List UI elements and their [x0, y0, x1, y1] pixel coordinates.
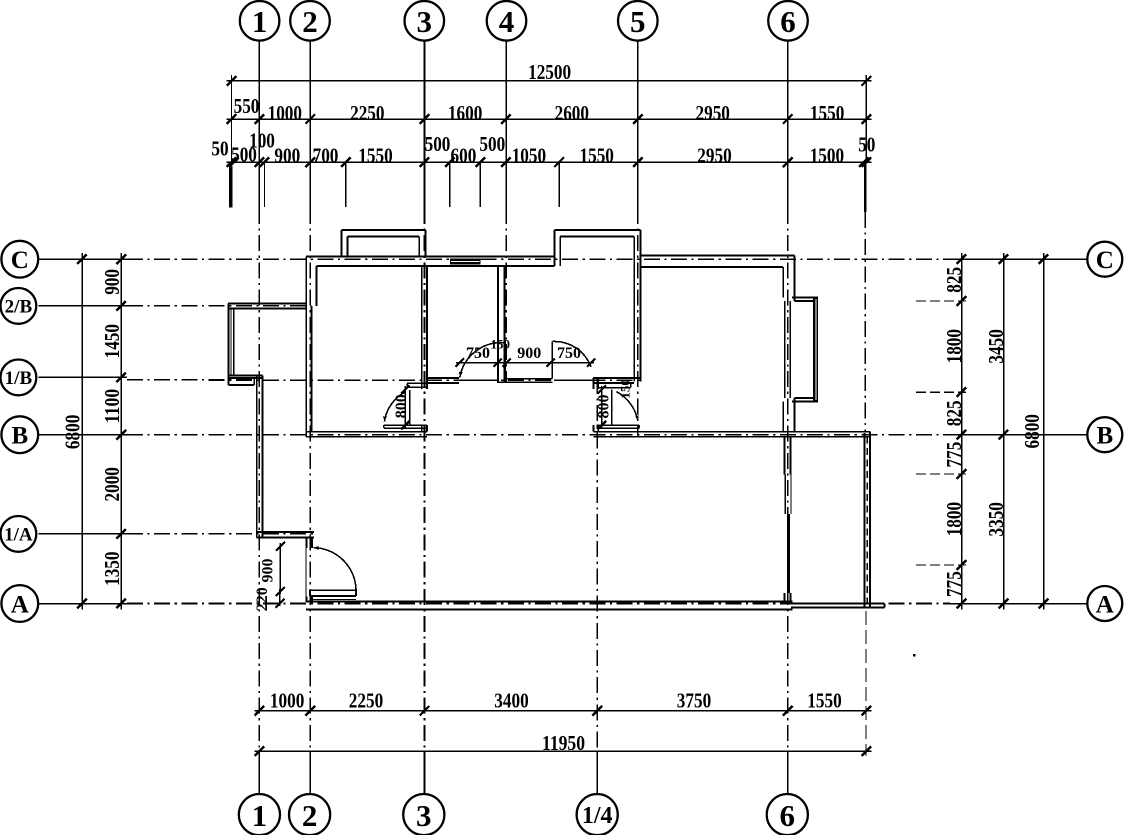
- svg-text:B: B: [11, 423, 28, 450]
- svg-text:50: 50: [211, 137, 228, 161]
- svg-text:1100: 1100: [100, 389, 124, 423]
- bottom dim row2 line: [254, 750, 871, 752]
- svg-text:2250: 2250: [350, 101, 384, 125]
- top dim row3 line: [227, 161, 872, 163]
- grid circle 1/B left: [1, 360, 37, 396]
- svg-text:C: C: [1096, 247, 1114, 274]
- grid circle 2 bottom: [289, 794, 330, 835]
- C wall right segment: [640, 255, 794, 257]
- door D5 outer face line: [305, 548, 307, 596]
- right outer wall grid6 above B: [793, 256, 795, 302]
- svg-text:A: A: [11, 592, 29, 619]
- svg-text:1/4: 1/4: [582, 803, 613, 829]
- svg-text:6800: 6800: [61, 415, 85, 449]
- grid circle 6 top: [768, 1, 808, 41]
- bay window right (bay3): [792, 297, 818, 299]
- A wall (bottom outer): [306, 600, 792, 602]
- svg-text:1550: 1550: [358, 143, 392, 167]
- svg-text:6: 6: [780, 4, 796, 39]
- svg-text:B: B: [1096, 423, 1113, 450]
- grid circle 3 top: [405, 1, 445, 41]
- lower-left wall with entry door (grid2): [305, 537, 307, 548]
- grid line B: [39, 434, 128, 436]
- grid line 4: [505, 41, 507, 209]
- svg-text:1: 1: [252, 798, 268, 833]
- door D3 top bar: [596, 382, 630, 384]
- grid circle 4 top: [487, 1, 527, 41]
- grid circle B right: [1087, 417, 1122, 452]
- svg-text:3400: 3400: [494, 689, 528, 713]
- door D5 sill line: [312, 598, 356, 600]
- interior dim ticks: [456, 358, 464, 366]
- left balcony walls: [228, 303, 306, 305]
- bottom dim row1 line: [254, 710, 871, 712]
- door D1 arc: [460, 343, 505, 378]
- svg-text:220: 220: [254, 587, 271, 611]
- 1/B wall segment left: [427, 377, 459, 379]
- grid circle 6 bottom: [767, 794, 808, 835]
- door D3 arc: [616, 392, 638, 421]
- svg-text:2950: 2950: [697, 143, 731, 167]
- svg-text:1800: 1800: [942, 502, 966, 536]
- svg-text:800: 800: [596, 395, 613, 419]
- svg-text:1600: 1600: [448, 101, 482, 125]
- balcony bottom-right floor edge: [791, 602, 885, 604]
- door D2 arc: [552, 341, 591, 367]
- svg-text:50: 50: [858, 132, 875, 156]
- svg-text:775: 775: [942, 442, 966, 468]
- svg-text:2000: 2000: [100, 467, 124, 501]
- svg-text:3: 3: [417, 4, 433, 39]
- svg-text:2/B: 2/B: [5, 297, 33, 318]
- grid circle 3 bottom: [403, 794, 444, 835]
- grid circle 1 top: [240, 1, 280, 41]
- svg-text:1500: 1500: [810, 143, 844, 167]
- svg-text:3350: 3350: [984, 502, 1008, 536]
- grid circle 1/4 bottom: [577, 794, 618, 835]
- svg-text:11950: 11950: [542, 731, 585, 755]
- door D1 threshold line: [459, 379, 499, 381]
- svg-text:1350: 1350: [100, 552, 124, 586]
- grid line 3: [424, 41, 426, 209]
- window bar in C wall: [450, 258, 481, 264]
- svg-text:1: 1: [252, 4, 268, 39]
- grid circle 1 bottom: [239, 794, 280, 835]
- door D5 (entry) leaf bar: [310, 589, 356, 591]
- left dim total line: [81, 253, 83, 610]
- right extension dashes: [916, 300, 966, 302]
- interior dim line doors D1/D2: [456, 362, 594, 364]
- top right extension line: [865, 75, 867, 162]
- grid line 1/A: [39, 533, 128, 535]
- balcony right wall with railing: [863, 433, 865, 607]
- svg-text:1/B: 1/B: [5, 368, 33, 389]
- svg-text:750: 750: [466, 345, 490, 362]
- top dim row1 line: [227, 80, 872, 82]
- svg-text:500: 500: [479, 132, 505, 156]
- svg-text:800: 800: [393, 394, 410, 418]
- grid circle A right: [1087, 586, 1122, 621]
- svg-text:3: 3: [416, 798, 432, 833]
- door D4 threshold: [384, 424, 427, 426]
- svg-text:900: 900: [260, 559, 277, 583]
- grid circle 5 top: [618, 1, 658, 41]
- C wall left segment: [306, 255, 555, 257]
- door D5 arc: [313, 548, 356, 591]
- interior wall grid3: [421, 266, 423, 389]
- grid line 1: [258, 41, 260, 209]
- grid circle C right: [1087, 242, 1122, 277]
- lower-left outer wall (grid1): [256, 376, 258, 538]
- svg-text:500: 500: [425, 132, 451, 156]
- door D4 arc: [384, 392, 405, 422]
- interior dim line door D5: [279, 543, 281, 594]
- svg-text:12500: 12500: [528, 60, 571, 84]
- grid circle 2/B left: [1, 288, 37, 324]
- svg-text:2600: 2600: [555, 101, 589, 125]
- svg-text:4: 4: [499, 4, 515, 39]
- grid line C: [39, 258, 128, 260]
- door D2 (bedroom3) leaf: [551, 342, 553, 379]
- svg-text:2: 2: [302, 4, 318, 39]
- svg-text:6800: 6800: [1020, 414, 1044, 448]
- svg-text:1800: 1800: [942, 329, 966, 363]
- svg-text:3450: 3450: [984, 329, 1008, 363]
- svg-text:1550: 1550: [807, 689, 841, 713]
- bay window top-middle (bay2): [555, 229, 641, 231]
- grid line A: [39, 603, 128, 605]
- right dim total line: [1043, 253, 1045, 610]
- grid line 1/4: [596, 378, 598, 751]
- right dim ticks: [957, 254, 967, 264]
- svg-text:5: 5: [630, 4, 646, 39]
- grid6 sliding panel: [787, 514, 790, 593]
- svg-text:150: 150: [491, 336, 511, 351]
- grid6 wall below B (living/balcony divider): [783, 437, 785, 475]
- svg-text:1550: 1550: [810, 101, 844, 125]
- interior wall grid4 (central): [497, 266, 499, 383]
- svg-text:2250: 2250: [349, 689, 383, 713]
- door D4 top bar: [407, 382, 427, 384]
- svg-text:2: 2: [302, 798, 318, 833]
- svg-text:900: 900: [100, 269, 124, 295]
- jog wall at 1/A: [257, 531, 314, 533]
- door D3 (right room, 1/4 wall) leaf: [611, 390, 613, 426]
- interior dim line door D4: [404, 386, 406, 429]
- left dim ticks: [77, 254, 87, 264]
- svg-text:600: 600: [451, 143, 477, 167]
- top dim ticks: [227, 76, 237, 86]
- grid line 1/B: [39, 376, 128, 378]
- right dim mid line: [1003, 253, 1005, 610]
- svg-text:100: 100: [249, 129, 275, 153]
- B wall left segment: [306, 431, 427, 433]
- bottom right extension: [865, 611, 867, 756]
- bay3 window glazing lines: [784, 301, 786, 398]
- interior dim line 220: [279, 589, 281, 606]
- arrowheads on door arcs: [458, 371, 463, 378]
- interior dim line door D3: [601, 386, 603, 429]
- grid6 window section: [784, 474, 786, 514]
- grid circle B left: [1, 416, 38, 453]
- door D1 (bedroom2) leaf: [504, 343, 506, 383]
- B wall right segment: [593, 431, 869, 433]
- room divider wall grid5 (bay2 right, down to 1/B): [639, 230, 641, 382]
- svg-text:825: 825: [942, 400, 966, 426]
- svg-text:550: 550: [234, 94, 260, 118]
- stray dot: [913, 654, 916, 657]
- grid circle A left: [1, 585, 38, 622]
- svg-text:1/A: 1/A: [4, 525, 33, 546]
- svg-text:3750: 3750: [677, 689, 711, 713]
- right dim detail line: [961, 253, 963, 610]
- svg-text:C: C: [11, 247, 29, 274]
- door D3 threshold: [596, 424, 639, 426]
- svg-text:900: 900: [274, 143, 300, 167]
- svg-text:150: 150: [618, 379, 633, 399]
- svg-text:825: 825: [942, 267, 966, 293]
- svg-text:700: 700: [313, 143, 339, 167]
- 1/4 wall stubs (door D3 wall): [592, 378, 594, 389]
- grid circle C left: [1, 241, 38, 278]
- bay window top-left (bay1): [342, 229, 426, 231]
- grid line 6: [787, 41, 789, 209]
- svg-text:750: 750: [557, 345, 581, 362]
- svg-text:1000: 1000: [270, 689, 304, 713]
- grid circle 1/A left: [1, 516, 37, 552]
- top dim row2 line: [227, 118, 872, 120]
- grid line 2: [309, 41, 311, 209]
- svg-text:A: A: [1096, 592, 1114, 619]
- svg-text:1050: 1050: [512, 143, 546, 167]
- svg-text:1450: 1450: [100, 324, 124, 358]
- grid line 2/B: [39, 305, 128, 307]
- svg-text:775: 775: [942, 571, 966, 597]
- svg-text:900: 900: [517, 345, 541, 362]
- grid circle 2 top: [290, 1, 330, 41]
- 1/B sill 900: [507, 378, 553, 380]
- svg-text:1550: 1550: [580, 143, 614, 167]
- door D4 (bedroom1, grid3 wall) leaf: [409, 390, 411, 425]
- bottom dim ticks: [255, 706, 265, 716]
- svg-text:6: 6: [780, 798, 796, 833]
- grid line 5: [637, 41, 639, 209]
- top left extension lines: [231, 75, 233, 162]
- door D2 threshold line: [554, 379, 591, 381]
- 1/B wall segment right: [593, 377, 640, 379]
- svg-text:2950: 2950: [696, 101, 730, 125]
- left dim detail line: [120, 253, 122, 610]
- svg-text:1000: 1000: [268, 101, 302, 125]
- left wall of bedroom1 (grid2 wall): [305, 256, 307, 437]
